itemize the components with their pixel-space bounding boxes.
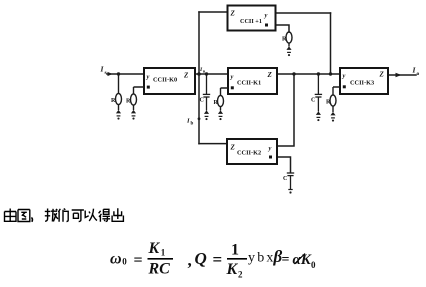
fullwidth comma (31, 218, 32, 222)
svg-text:R: R (111, 98, 116, 104)
svg-text:0: 0 (122, 257, 127, 267)
junction node A / C1 (205, 72, 208, 75)
svg-text:CCII·K1: CCII·K1 (237, 80, 261, 87)
char 可 (72, 210, 84, 222)
ground under C1 (204, 110, 209, 120)
svg-text:R: R (126, 99, 131, 105)
svg-text:2: 2 (238, 270, 243, 280)
svg-text:=: = (213, 250, 223, 269)
output arrow Io (396, 73, 402, 77)
svg-text:y: y (268, 145, 272, 152)
svg-text:C: C (200, 98, 204, 104)
wire U2.Z to U3.y (node B bus) (277, 73, 340, 75)
node Ib dot on left feedback wire (198, 117, 201, 120)
formula: , Q = 1/K2 (188, 242, 248, 280)
ground under C2 (316, 111, 321, 121)
resistor R5 (U3.x to ground) (330, 87, 340, 112)
CCII block U2 (CCII.K1) (228, 68, 277, 94)
svg-text:Z: Z (183, 72, 189, 80)
svg-text:s: s (105, 70, 107, 76)
resistor R3 (U2.x to ground) (218, 88, 229, 111)
svg-text:Q: Q (195, 249, 207, 268)
svg-text:=: = (282, 253, 290, 268)
ground under R4 (286, 46, 291, 56)
wire bottom horizontal into U5.Z (199, 143, 227, 145)
wire top-left horizontal to U4.Z (199, 11, 228, 13)
svg-text:,: , (188, 251, 192, 270)
svg-text:I: I (186, 118, 190, 125)
svg-text:o: o (417, 71, 420, 77)
resistor R2 (U1.x to ground) (131, 87, 145, 110)
char 以 (85, 209, 97, 221)
svg-text:Z: Z (379, 71, 385, 79)
capacitor C3 (U5.x to ground) (287, 173, 294, 189)
junction node A / left feedback (197, 72, 201, 76)
wire output U3.Z to Io (388, 74, 416, 76)
CCII block U5 (CCII.K2) (227, 139, 277, 164)
svg-text:ω: ω (110, 251, 122, 268)
formula: omega0 = K1/RC (110, 240, 173, 278)
wire U5.x to capacitor C3 (277, 157, 291, 172)
svg-text:CCII·K0: CCII·K0 (153, 77, 177, 84)
char 出 (112, 208, 123, 221)
svg-text:RC: RC (148, 261, 171, 278)
junction node B / C2 (317, 72, 320, 75)
svg-text:=: = (134, 252, 143, 269)
svg-text:R: R (214, 100, 219, 106)
svg-text:R: R (326, 100, 331, 106)
CCII block U4 (CCII +1) (228, 6, 276, 31)
ground under R2 (131, 110, 136, 120)
svg-text:1: 1 (161, 248, 166, 258)
caption: Chinese sentence drawn as vector strokes (5, 208, 124, 222)
svg-text:y: y (146, 74, 150, 81)
svg-text:αK: αK (293, 252, 312, 268)
resistor R4 (U4.x to ground) (286, 32, 292, 47)
char 得 (99, 209, 111, 221)
CCII block U3 (CCII.K3) (340, 68, 388, 94)
svg-text:y: y (342, 73, 346, 80)
svg-text:b: b (191, 122, 194, 127)
svg-text:K: K (226, 261, 239, 278)
ground under C3 (288, 190, 292, 194)
char 图 (18, 210, 30, 222)
svg-text:CCII +1: CCII +1 (240, 18, 262, 25)
wire input Is to U1.y (107, 73, 144, 75)
resistor R1 (input shunt) (116, 74, 122, 110)
svg-text:R: R (282, 37, 287, 43)
junction node B / U5.y riser (292, 72, 295, 75)
svg-text:y: y (264, 12, 268, 19)
garbled overprint: ybx beta = alpha K0 (248, 247, 316, 270)
ground under R3 (218, 110, 223, 120)
wire U4.x to resistor R4 (276, 25, 290, 32)
svg-text:K: K (148, 240, 161, 257)
svg-text:C: C (311, 98, 315, 104)
svg-text:0: 0 (311, 260, 316, 270)
capacitor C2 (node B to ground) (315, 74, 322, 112)
wire top-right horizontal from U4.y (276, 12, 331, 14)
char 我 (45, 209, 58, 222)
capacitor C1 (node A to ground) (203, 74, 210, 111)
char 们 (58, 209, 68, 222)
ground under R5 (330, 112, 335, 122)
wire U1.Z to U2.y (node A bus) (195, 73, 228, 75)
svg-text:Z: Z (230, 10, 236, 18)
wire U5.y up to node B (277, 74, 294, 146)
char 由 (5, 209, 17, 222)
svg-text:Z: Z (267, 71, 273, 79)
svg-text:y: y (230, 74, 234, 81)
svg-text:C: C (283, 176, 287, 182)
svg-text:CCII·K3: CCII·K3 (350, 80, 374, 87)
svg-text:1: 1 (231, 242, 239, 259)
svg-text:Z: Z (230, 144, 236, 152)
junction input/R1 (117, 72, 120, 75)
wire right feedback vertical to node B (330, 13, 332, 74)
junction node B / right feedback (329, 72, 332, 75)
ground under R1 (116, 110, 121, 120)
svg-text:CCII·K2: CCII·K2 (237, 150, 261, 157)
svg-text:ybx: ybx (248, 251, 276, 266)
wire left feedback vertical (U4.Z down to U5.Z) (198, 12, 200, 144)
CCII block U1 (CCII.K0) (144, 68, 195, 94)
input arrow Is (108, 72, 113, 76)
